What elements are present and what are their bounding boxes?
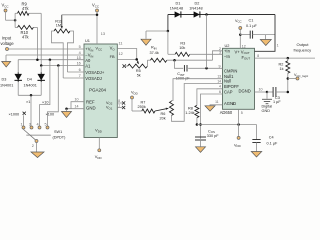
svg-text:1N4148: 1N4148 (189, 6, 202, 10)
svg-text:3: 3 (219, 51, 221, 55)
svg-text:1: 1 (21, 123, 23, 127)
svg-text:VOSADJ: VOSADJ (85, 76, 102, 81)
svg-text:6: 6 (219, 90, 221, 94)
svg-text:GND: GND (262, 109, 271, 113)
svg-text:10k: 10k (179, 46, 185, 50)
svg-text:0.1 µF: 0.1 µF (246, 24, 258, 28)
svg-text:14: 14 (217, 79, 221, 83)
svg-text:+In: +In (224, 49, 231, 54)
svg-text:R3: R3 (180, 41, 185, 45)
svg-text:2: 2 (32, 144, 34, 148)
svg-text:10: 10 (75, 98, 79, 102)
svg-text:U2: U2 (225, 43, 230, 48)
svg-text:14: 14 (75, 105, 79, 109)
svg-text:voltage: voltage (1, 41, 15, 46)
svg-text:8: 8 (257, 54, 259, 58)
svg-text:47k: 47k (22, 6, 30, 11)
svg-text:8: 8 (118, 99, 120, 103)
svg-text:20k: 20k (160, 117, 166, 121)
svg-text:4: 4 (79, 51, 81, 55)
svg-text:−In: −In (224, 54, 231, 59)
svg-text:12: 12 (119, 52, 123, 56)
svg-text:FB: FB (110, 54, 115, 59)
svg-text:13: 13 (217, 75, 221, 79)
svg-text:(DPDT): (DPDT) (53, 136, 67, 140)
svg-text:CAP: CAP (224, 89, 233, 94)
svg-text:R6: R6 (161, 112, 166, 116)
svg-text:Input: Input (2, 36, 12, 41)
svg-text:DGND: DGND (239, 89, 251, 94)
svg-text:16: 16 (77, 62, 81, 66)
svg-text:D3: D3 (2, 78, 7, 82)
svg-text:PGA204: PGA204 (89, 88, 107, 93)
svg-text:250k: 250k (138, 105, 146, 109)
svg-text:37.4k: 37.4k (150, 51, 159, 55)
svg-text:C4: C4 (269, 135, 274, 139)
svg-text:5k: 5k (137, 74, 141, 78)
svg-text:11: 11 (215, 100, 219, 104)
svg-text:1: 1 (277, 44, 279, 48)
svg-text:GND: GND (86, 106, 96, 111)
svg-text:1: 1 (118, 104, 120, 108)
svg-text:Output: Output (297, 42, 310, 47)
svg-text:Null: Null (224, 79, 231, 84)
svg-text:×1000: ×1000 (9, 113, 20, 117)
svg-text:×1: ×1 (26, 100, 30, 104)
svg-text:D2: D2 (195, 1, 200, 5)
svg-text:D1: D1 (176, 1, 181, 5)
svg-text:7: 7 (79, 74, 81, 78)
svg-text:4: 4 (37, 123, 39, 127)
svg-text:13: 13 (101, 32, 105, 36)
svg-text:12: 12 (242, 44, 246, 48)
svg-text:47k: 47k (22, 35, 30, 40)
svg-text:1N4148: 1N4148 (170, 6, 183, 10)
svg-text:AD650: AD650 (220, 110, 233, 115)
svg-text:VOSADJ+: VOSADJ+ (85, 70, 105, 75)
svg-text:4: 4 (219, 85, 221, 89)
svg-text:SW1: SW1 (54, 130, 62, 134)
svg-text:1M: 1M (56, 24, 61, 28)
svg-text:VCC_logic: VCC_logic (294, 73, 309, 78)
svg-text:15: 15 (77, 56, 81, 60)
svg-text:1 µF: 1 µF (273, 100, 281, 104)
svg-text:R7: R7 (141, 101, 146, 105)
svg-text:3: 3 (29, 123, 31, 127)
svg-text:6: 6 (79, 68, 81, 72)
svg-text:D4: D4 (27, 78, 32, 82)
svg-text:C1: C1 (249, 18, 254, 22)
svg-text:R8: R8 (188, 107, 193, 111)
svg-text:U1: U1 (85, 38, 90, 43)
svg-text:R2: R2 (279, 62, 284, 66)
svg-text:frequency: frequency (294, 48, 312, 53)
svg-text:11: 11 (119, 41, 123, 45)
svg-text:A0: A0 (85, 58, 91, 63)
svg-text:×100: ×100 (46, 112, 55, 116)
svg-text:A1: A1 (85, 64, 91, 69)
svg-text:REF: REF (86, 100, 95, 105)
svg-text:5: 5 (45, 123, 47, 127)
svg-text:5: 5 (79, 45, 81, 49)
svg-text:CMPIN: CMPIN (224, 68, 237, 73)
svg-text:0.1 µF: 0.1 µF (267, 142, 279, 146)
svg-text:10: 10 (259, 87, 263, 91)
svg-text:9: 9 (219, 65, 221, 69)
svg-text:V+: V+ (235, 49, 241, 54)
svg-text:×10: ×10 (42, 100, 48, 104)
svg-text:Digital: Digital (262, 105, 273, 109)
svg-text:5: 5 (241, 111, 243, 115)
svg-text:1.24k: 1.24k (185, 111, 194, 115)
svg-text:1k: 1k (280, 67, 284, 71)
svg-text:R5: R5 (136, 69, 141, 73)
svg-text:1N4001: 1N4001 (24, 84, 37, 88)
svg-text:1N4001: 1N4001 (0, 84, 13, 88)
svg-text:330 pF: 330 pF (207, 134, 220, 138)
